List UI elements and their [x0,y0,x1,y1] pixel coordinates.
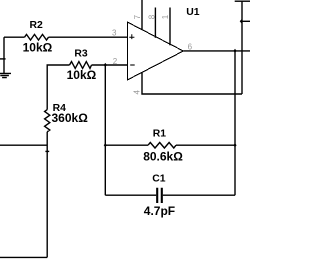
svg-text:U1: U1 [186,7,200,18]
svg-text:R1: R1 [153,128,167,139]
wire: op-amp top pin 8 stub [154,8,156,38]
wire: R2 right lead to op-amp pin 3 [49,36,128,38]
svg-text:1: 1 [161,14,170,19]
wire: C1 left lead [105,194,156,196]
wire: R3 left lead with corner down to R4 [47,65,69,110]
svg-text:R3: R3 [74,49,88,60]
svg-text:R2: R2 [30,20,44,31]
wire: op-amp top pin 7 stub [141,0,143,30]
junction: pin2 node at feedback riser [104,63,107,67]
wire: top tee segment [235,0,250,2]
ground [0,73,11,77]
wire: left box bottom segment [0,256,47,258]
junction: R1 left at feedback riser [104,143,107,147]
wire: R3 right lead to op-amp pin 2 [92,64,128,66]
svg-text:8: 8 [148,14,157,19]
op-amp U1 plus marker [129,34,134,39]
wire: left box top segment [0,144,47,146]
resistor R3 [70,62,92,69]
wire: op-amp output to right edge [183,50,250,52]
wire: R1 right lead [176,144,235,146]
resistor R2 [25,34,49,40]
wire: C1 right lead [163,194,235,196]
junction: output node at right riser [233,49,236,53]
wire: op-amp pin 4 drop and return to right riser [142,72,242,94]
svg-text:3: 3 [112,29,117,38]
svg-text:360kΩ: 360kΩ [52,111,89,125]
wire: right riser B up from pin4 return [241,1,243,94]
wire: right stub at y21 [242,20,250,22]
svg-text:2: 2 [113,57,118,66]
wire: tick on R4 bottom lead [45,150,49,152]
svg-text:7: 7 [133,14,142,19]
wire: R4 bottom lead down left box right side [46,132,48,258]
resistor R4 [45,110,50,132]
wire: output riser down right side to C1 [234,51,236,195]
wire: pin3 net left segment from ground riser to R2 [4,36,25,38]
op-amp U1 minus marker [130,64,135,66]
svg-text:C1: C1 [152,174,166,185]
wire: small tick on ground riser [0,58,6,60]
wire: feedback riser from pin2 node down to C1 [104,65,106,195]
wire: riser from R2 down to ground [3,37,5,73]
svg-text:10kΩ: 10kΩ [67,68,97,82]
svg-text:4: 4 [132,90,141,95]
capacitor C1 [157,188,162,203]
svg-text:80.6kΩ: 80.6kΩ [143,149,183,163]
wire: op-amp top pin 1 stub [169,8,171,46]
svg-text:6: 6 [188,42,193,51]
junction: R1 right at output riser [233,143,236,147]
svg-text:10kΩ: 10kΩ [23,40,53,54]
junction: arrow on right stub [240,19,243,23]
resistor R1 [148,143,176,149]
svg-text:4.7pF: 4.7pF [144,204,175,218]
wire: R1 left lead [105,144,148,146]
op-amp U1 [128,22,184,80]
